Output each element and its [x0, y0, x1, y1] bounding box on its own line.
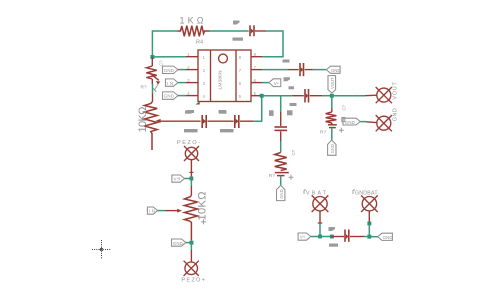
svg-text:C?: C?: [291, 149, 296, 155]
wire bypass cap to GND flag: [305, 69, 313, 71]
origin crosshair: [92, 240, 111, 259]
svg-text:R?: R?: [320, 130, 326, 136]
pin 6 stub: [251, 82, 262, 84]
svg-text:GND: GND: [164, 68, 174, 73]
svg-text:V+: V+: [274, 81, 280, 86]
net flag GND pin4: [163, 92, 179, 99]
wire GNDBAT pad down: [368, 211, 370, 223]
VBAT wire end tick: [318, 222, 323, 224]
wire V+ flag to junctions: [311, 236, 332, 238]
wire T-drop from pin5 run: [280, 96, 282, 112]
wiper arrowhead of left pot: [155, 119, 160, 123]
pin 4 stub: [186, 95, 198, 97]
svg-text:VR: VR: [174, 177, 181, 182]
svg-text:1KΩ: 1KΩ: [180, 16, 204, 26]
pad PEZO+: [184, 261, 199, 276]
label C3 value blob: [233, 38, 244, 41]
junction node pin5: [260, 94, 264, 98]
label C6 value blob: [329, 244, 338, 247]
pad GNDBAT: [361, 195, 378, 212]
label IC1 name blob: [185, 111, 192, 114]
label blob near V+ lower: [289, 86, 295, 89]
junction node pot bottom: [190, 241, 194, 245]
capacitor C4 output coupling: [305, 89, 309, 103]
pad GND: [376, 115, 392, 131]
net flag GND pin7: [326, 66, 340, 73]
label blob near V+: [284, 77, 291, 81]
wire pin6 to V+ flag: [262, 82, 269, 84]
svg-text:GND: GND: [279, 189, 284, 198]
wire PEZO- pad down: [190, 160, 192, 176]
plus sign chain cap: [289, 175, 294, 180]
junction node VOUT: [330, 94, 334, 98]
junction node bus mid: [330, 235, 334, 239]
svg-text:IN: IN: [149, 209, 155, 214]
svg-text:IN: IN: [167, 81, 173, 86]
wire junction to PEZO+ pad: [190, 243, 192, 250]
wire corner up to pin5 junction: [253, 96, 262, 122]
wire junction to pot top: [190, 179, 192, 187]
svg-text:GND: GND: [330, 144, 335, 153]
trimmer wiper pin gray mark: [153, 84, 159, 92]
svg-text:GND: GND: [383, 235, 393, 240]
wire C4 to VOUT junction: [310, 95, 322, 97]
wire VOUT node down zobel: [331, 96, 333, 108]
bottom pot gray cross mark: [201, 219, 206, 224]
wire C3 to right corner: [255, 30, 266, 32]
net flag IN bottom: [147, 207, 157, 214]
capacitor C6 inner plate mark: [346, 234, 349, 239]
capacitor C1 input chain left: [202, 115, 206, 128]
net flag GND pin2: [163, 66, 179, 73]
svg-text:GNDBAT: GNDBAT: [355, 190, 378, 196]
wire pin7 to bypass cap: [262, 69, 288, 71]
svg-text:GND: GND: [345, 120, 355, 125]
net flag GND battery: [378, 233, 393, 240]
wire between C1 and C2: [207, 120, 233, 122]
svg-text:10KΩ: 10KΩ: [197, 192, 209, 221]
resistor R3 zobel: [326, 112, 337, 123]
junction node GNDBAT drop: [367, 222, 371, 226]
svg-text:VOUT: VOUT: [392, 81, 398, 99]
wire pin5 junction to C4: [262, 95, 292, 97]
label C3 name blob: [233, 21, 240, 25]
svg-text:VOUT: VOUT: [330, 77, 335, 89]
pin 7 stub: [251, 69, 262, 71]
wire junction to C6: [332, 236, 344, 238]
label C bypass blob: [283, 60, 290, 63]
capacitor C5 chain: [275, 127, 288, 130]
trimmer R2 wiper arrowhead: [156, 81, 160, 85]
wire pin3 to IN flag: [178, 82, 186, 84]
pad VBAT: [312, 195, 329, 212]
svg-text:R4: R4: [196, 40, 203, 46]
junction node VR: [189, 177, 193, 181]
wire C5 to R5: [280, 131, 282, 141]
net flag GND to GND pad: [343, 118, 360, 125]
wire pin4 to GND flag: [178, 95, 186, 97]
label R3 gray bracket: [342, 117, 345, 121]
pin 1 stub: [186, 56, 198, 58]
svg-text:GND: GND: [392, 108, 398, 121]
capacitor C bypass inner plate mark: [301, 67, 304, 72]
label C2 value blob: [220, 129, 234, 132]
svg-text:V+: V+: [300, 235, 306, 240]
wire top right corner down to pin 8: [262, 31, 283, 57]
wire trimmer to pot (left column): [152, 84, 154, 94]
net flag V+ pin6: [269, 79, 281, 87]
svg-text:GND: GND: [164, 94, 174, 99]
op-amp IC1 LM386: [198, 50, 251, 102]
wire IN flag to wiper: [158, 210, 166, 212]
net flag VR: [172, 175, 185, 182]
svg-text:PEZO+: PEZO+: [181, 278, 205, 284]
wire pin2 to GND flag: [178, 69, 186, 71]
svg-text:GND: GND: [331, 68, 341, 73]
svg-text:10KΩ: 10KΩ: [137, 107, 149, 133]
wire GND flag to pot bottom junction: [186, 242, 192, 244]
label C2 name blob: [219, 110, 227, 113]
wire C6 to GNDBAT junction: [350, 236, 364, 238]
label GNDBAT lead mark: [353, 190, 355, 194]
capacitor C2 input chain right: [235, 115, 239, 128]
wire VOUT node to pad: [332, 95, 365, 97]
capacitor C bypass pin7: [300, 63, 304, 76]
junction node GNDBAT bus: [367, 235, 371, 239]
wire VBAT pad down: [319, 211, 321, 224]
trimmer R2 gain: [146, 57, 159, 84]
svg-text:R?: R?: [141, 85, 147, 91]
ground flag zobel vertical GND: [328, 140, 336, 155]
pin 5 stub: [251, 95, 262, 97]
IC1 corner origin mark: [196, 102, 200, 105]
capacitor C3 feedback: [250, 25, 254, 36]
capacitor C6 battery: [345, 230, 349, 242]
svg-text:LM386N: LM386N: [218, 70, 224, 90]
potentiometer R1 10KΩ left: [144, 102, 157, 151]
capacitor C2 inner plate mark: [236, 119, 239, 124]
svg-text:GND: GND: [173, 241, 183, 246]
svg-text:R?: R?: [269, 173, 275, 179]
net flag VOUT vertical: [328, 76, 336, 93]
capacitor C4 inner plate mark: [306, 93, 309, 98]
pin 8 stub: [251, 56, 262, 58]
label C6 name blob: [329, 227, 336, 231]
wire VR flag to junction: [185, 178, 192, 180]
ground flag chain vertical GND: [277, 185, 285, 200]
pin 3 stub: [186, 82, 198, 84]
label C5 name rotated blob: [269, 110, 274, 116]
wire GNDBAT drop teal: [368, 223, 370, 236]
capacitor C zobel polarized: [328, 123, 337, 128]
wire GND flag to pad: [360, 121, 366, 123]
wire pin1 to junction: [152, 56, 186, 58]
resistor R5 chain: [275, 153, 287, 171]
label C4 value blob: [287, 110, 293, 115]
label VBAT lead mark: [304, 190, 306, 194]
label IC1 value blob: [219, 111, 227, 114]
label C1 name blob: [187, 110, 195, 113]
wire feedback top-left vertical: [152, 31, 177, 57]
wire VBAT drop teal: [319, 224, 321, 237]
resistor R4: [178, 26, 210, 37]
junction node pin1 feedback: [151, 55, 155, 59]
junction node VBAT bus: [318, 235, 322, 239]
wire chain to GND flag: [280, 176, 282, 185]
plus sign zobel cap: [339, 128, 344, 133]
potentiometer 10KΩ bottom: [184, 196, 197, 241]
svg-text:C?: C?: [342, 104, 347, 110]
wire zobel cap to GND flag: [331, 128, 333, 140]
capacitor C1 inner plate mark: [203, 119, 206, 124]
net flag GND bottom pot: [172, 239, 186, 246]
label C4 name blob: [290, 103, 297, 106]
wiper arrowhead bottom pot: [177, 209, 182, 213]
pad PEZO-: [184, 146, 199, 161]
net flag IN pin3: [166, 79, 179, 86]
capacitor C3 inner plate mark: [251, 29, 254, 34]
wire C2 to corner: [240, 120, 253, 122]
pad VOUT: [376, 87, 392, 103]
wire top between R4 and C3: [210, 30, 249, 32]
PEZO- wire end tick: [189, 171, 193, 173]
net flag V+ battery: [298, 233, 311, 240]
pin 2 stub: [186, 69, 198, 71]
capacitor CPOL chain plates: [275, 173, 289, 176]
label C1 value blob: [184, 129, 198, 132]
wire wiper to C chain: [161, 120, 201, 122]
svg-text:C?: C?: [159, 60, 164, 66]
